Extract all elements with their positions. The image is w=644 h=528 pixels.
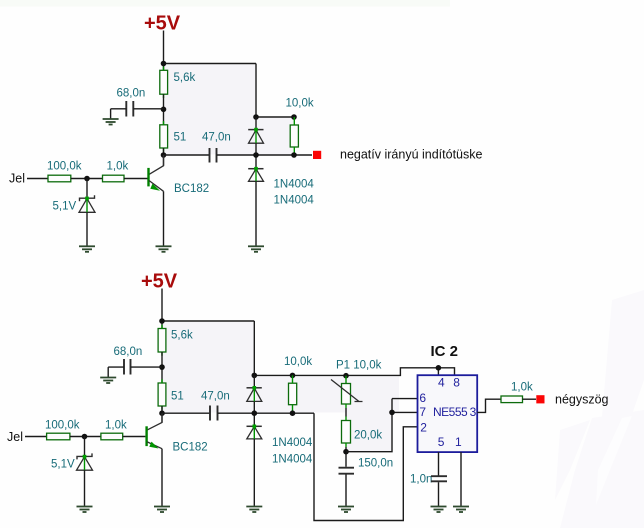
wire 47,0n to corner — [218, 412, 315, 414]
svg-text:51: 51 — [174, 132, 187, 144]
wire rail drop right — [255, 64, 257, 118]
ground pin1 — [453, 507, 469, 513]
zener diode 5,1V — [53, 179, 96, 213]
selection tint cell bottom circuit diode/10k band — [256, 377, 400, 413]
wire pin1 to ground — [460, 452, 462, 506]
node output junction right bottom — [290, 410, 296, 416]
svg-text:negatív irányú indítótüske: negatív irányú indítótüske — [340, 148, 482, 162]
wire 150,0n to ground — [345, 475, 347, 507]
node diode top junction — [253, 114, 259, 120]
wire cap to ground bottom — [107, 367, 109, 377]
faint top scan band — [0, 0, 450, 7]
wire 1,0n to ground — [438, 482, 440, 506]
node base junction bottom — [82, 434, 88, 440]
svg-text:100,0k: 100,0k — [45, 420, 80, 432]
resistor 5,6k — [160, 70, 196, 94]
node diode top junction bottom — [252, 373, 258, 379]
capacitor 47,0n bottom — [201, 391, 230, 421]
resistor 51 bottom — [158, 383, 184, 406]
selection tint cell top circuit main — [165, 65, 256, 155]
capacitor 68,0n bottom — [108, 346, 162, 375]
svg-text:IC 2: IC 2 — [431, 343, 459, 360]
resistor 20,0k — [342, 421, 383, 444]
svg-text:2: 2 — [420, 421, 427, 435]
svg-text:68,0n: 68,0n — [117, 88, 146, 100]
node rail-left junction bottom — [159, 318, 165, 324]
wire 10,0k stubs bottom — [292, 375, 294, 413]
faint watermark bottom right — [555, 290, 644, 528]
wire 100,0k to node — [71, 178, 103, 180]
wire emitter to ground — [163, 191, 165, 246]
resistor 1,0k bottom — [101, 420, 127, 440]
wire D2 to ground — [255, 181, 257, 246]
wire D3 to node — [253, 401, 255, 426]
capacitor 47,0n — [202, 132, 231, 163]
resistor 100,0k — [47, 161, 82, 182]
wire D1 to node — [255, 143, 257, 169]
op-amp U1 NE555 box — [418, 375, 478, 452]
svg-text:5: 5 — [438, 435, 445, 449]
svg-text:10,0k: 10,0k — [286, 98, 314, 110]
wire 1,0k to base — [124, 178, 148, 180]
wire zener to ground — [86, 212, 88, 246]
wire to 10,0k top — [256, 116, 294, 118]
node P1 top junction — [343, 373, 349, 379]
node output junction left bottom — [252, 410, 258, 416]
selection tint cell bottom circuit 20k zone — [347, 413, 391, 452]
wire 51 to collector node bottom — [161, 406, 163, 423]
svg-text:1N4004: 1N4004 — [274, 179, 315, 191]
wire D4 to ground — [253, 439, 255, 506]
svg-text:1,0k: 1,0k — [511, 382, 533, 394]
diode D1 1N4004 — [248, 117, 263, 143]
pin stubs 5,6k bottom — [161, 325, 163, 356]
resistor 5,6k bottom — [158, 329, 193, 353]
wire node to 6/7 riser — [346, 412, 392, 451]
ground 68,0n — [103, 119, 119, 125]
svg-text:150,0n: 150,0n — [358, 458, 393, 470]
node 6/7 junction — [389, 410, 395, 416]
wire emitter to ground bottom — [161, 449, 163, 506]
wire 1,0k to base bottom — [123, 436, 146, 438]
wire 20,0k to node — [345, 443, 347, 447]
svg-text:47,0n: 47,0n — [202, 132, 231, 144]
wire pin4 stub — [437, 368, 439, 375]
svg-text:51: 51 — [171, 391, 184, 403]
svg-text:20,0k: 20,0k — [354, 430, 382, 442]
wire 10,0k bottom stub — [293, 147, 295, 155]
wire 1,0k to pad — [523, 398, 537, 400]
resistor 51 — [160, 125, 186, 148]
ground emitter top circuit — [156, 246, 172, 252]
node 10,0k top junction bottom — [290, 373, 296, 379]
ground diodes top circuit — [248, 246, 264, 252]
svg-text:68,0n: 68,0n — [114, 346, 143, 358]
svg-text:5,6k: 5,6k — [174, 72, 196, 84]
svg-text:7: 7 — [419, 405, 426, 419]
wire 51 to collector node — [163, 148, 165, 166]
svg-text:BC182: BC182 — [174, 183, 209, 195]
wire supply row y375 — [254, 368, 454, 376]
wire pin3 output — [477, 399, 501, 412]
node 5,6k/51/cap junction — [161, 107, 167, 113]
node pin4/8 junction — [436, 365, 442, 371]
svg-text:Jel: Jel — [7, 430, 23, 444]
svg-text:1N4004: 1N4004 — [272, 437, 313, 449]
wire +5V to rail bottom — [161, 289, 163, 329]
potentiometer P1 — [331, 360, 382, 405]
ground 1,0n — [431, 507, 447, 513]
svg-text:4: 4 — [438, 375, 445, 389]
resistor 10,0k bottom — [284, 356, 312, 405]
wire pin5 to 1,0n — [438, 452, 440, 475]
ground emitter bottom circuit — [154, 507, 170, 513]
diode D2 1N4004 — [248, 167, 263, 181]
capacitor 150,0n — [339, 458, 394, 474]
node rail-left junction — [161, 61, 167, 67]
wire 100,0k to node bottom — [70, 436, 101, 438]
svg-text:1: 1 — [455, 435, 462, 449]
wire +5V to rail — [163, 31, 165, 71]
resistor 100,0k bottom — [45, 420, 80, 440]
node base junction — [84, 176, 90, 182]
svg-text:8: 8 — [453, 375, 460, 389]
pin stubs 5,6k — [163, 67, 165, 99]
wire rail drop right bottom — [253, 321, 255, 375]
svg-text:1,0n: 1,0n — [410, 474, 432, 486]
svg-text:+5V: +5V — [141, 271, 178, 293]
svg-text:Jel: Jel — [9, 172, 25, 186]
transistor Q1 BC182 — [147, 155, 209, 195]
ground zener bottom circuit — [77, 507, 93, 513]
node 10,0k top junction — [291, 114, 297, 120]
node output junction right — [291, 152, 297, 158]
svg-text:négyszög: négyszög — [555, 393, 609, 407]
wire Jel to 100,0k — [27, 178, 48, 180]
node output junction left — [253, 152, 259, 158]
resistor 10,0k — [286, 98, 314, 148]
svg-text:P1 10,0k: P1 10,0k — [336, 360, 382, 372]
output pad negative spike — [313, 151, 321, 159]
capacitor 1,0n — [410, 474, 447, 486]
svg-text:BC182: BC182 — [173, 442, 208, 454]
zener diode 5,1V bottom — [51, 437, 93, 471]
svg-text:5,1V: 5,1V — [53, 201, 77, 213]
wire 5,6k to node — [163, 94, 165, 125]
wire P1 to 20,0k — [345, 404, 347, 421]
diode D4 1N4004 — [247, 425, 262, 439]
ground 68,0n bottom — [100, 378, 116, 384]
resistor 1,0k output — [501, 382, 533, 403]
node collector junction — [161, 152, 167, 158]
node 20,0k/cap junction — [343, 449, 349, 455]
wire pin6 link — [392, 399, 418, 413]
wire 5,6k to node bottom — [161, 352, 163, 383]
ground zener top circuit — [79, 246, 95, 252]
pin stubs 51 — [163, 121, 165, 152]
ground diodes bottom circuit — [246, 507, 262, 513]
svg-text:1,0k: 1,0k — [107, 161, 129, 173]
pin stubs 51 bottom — [161, 379, 163, 410]
svg-text:NE555: NE555 — [433, 405, 468, 419]
svg-text:1N4004: 1N4004 — [272, 454, 313, 466]
svg-text:6: 6 — [419, 391, 426, 405]
svg-text:1N4004: 1N4004 — [274, 195, 315, 207]
wire cap to ground — [110, 109, 112, 119]
wire top rail — [164, 63, 257, 65]
svg-text:5,1V: 5,1V — [51, 459, 75, 471]
wire zener to ground bottom — [84, 470, 86, 506]
capacitor 68,0n — [111, 88, 164, 117]
svg-text:47,0n: 47,0n — [201, 391, 230, 403]
transistor Q2 BC182 — [145, 413, 207, 453]
svg-text:3: 3 — [470, 405, 477, 419]
wire node to 47,0n bottom — [162, 412, 210, 414]
svg-text:5,6k: 5,6k — [171, 330, 193, 342]
selection tint cell top circuit diode/10k — [257, 118, 293, 155]
wire node to 47,0n — [164, 154, 210, 156]
svg-text:+5V: +5V — [144, 13, 181, 35]
svg-text:10,0k: 10,0k — [284, 356, 312, 368]
output pad square wave — [536, 395, 544, 403]
svg-text:100,0k: 100,0k — [47, 161, 82, 173]
wire 47,0n to output node — [217, 154, 313, 156]
ground 150,0n — [338, 507, 354, 513]
resistor 1,0k — [103, 161, 129, 182]
svg-text:1,0k: 1,0k — [105, 420, 127, 432]
wire Jel to 100,0k bottom — [25, 436, 47, 438]
diode D3 1N4004 — [247, 375, 262, 401]
selection tint cell bottom circuit main — [163, 322, 253, 413]
wire trigger loop — [314, 413, 418, 520]
wire bottom rail — [162, 320, 254, 322]
wire 10,0k top stub — [293, 117, 295, 125]
node 5,6k/51/cap junction bottom — [159, 364, 165, 370]
node collector junction bottom — [159, 410, 165, 416]
